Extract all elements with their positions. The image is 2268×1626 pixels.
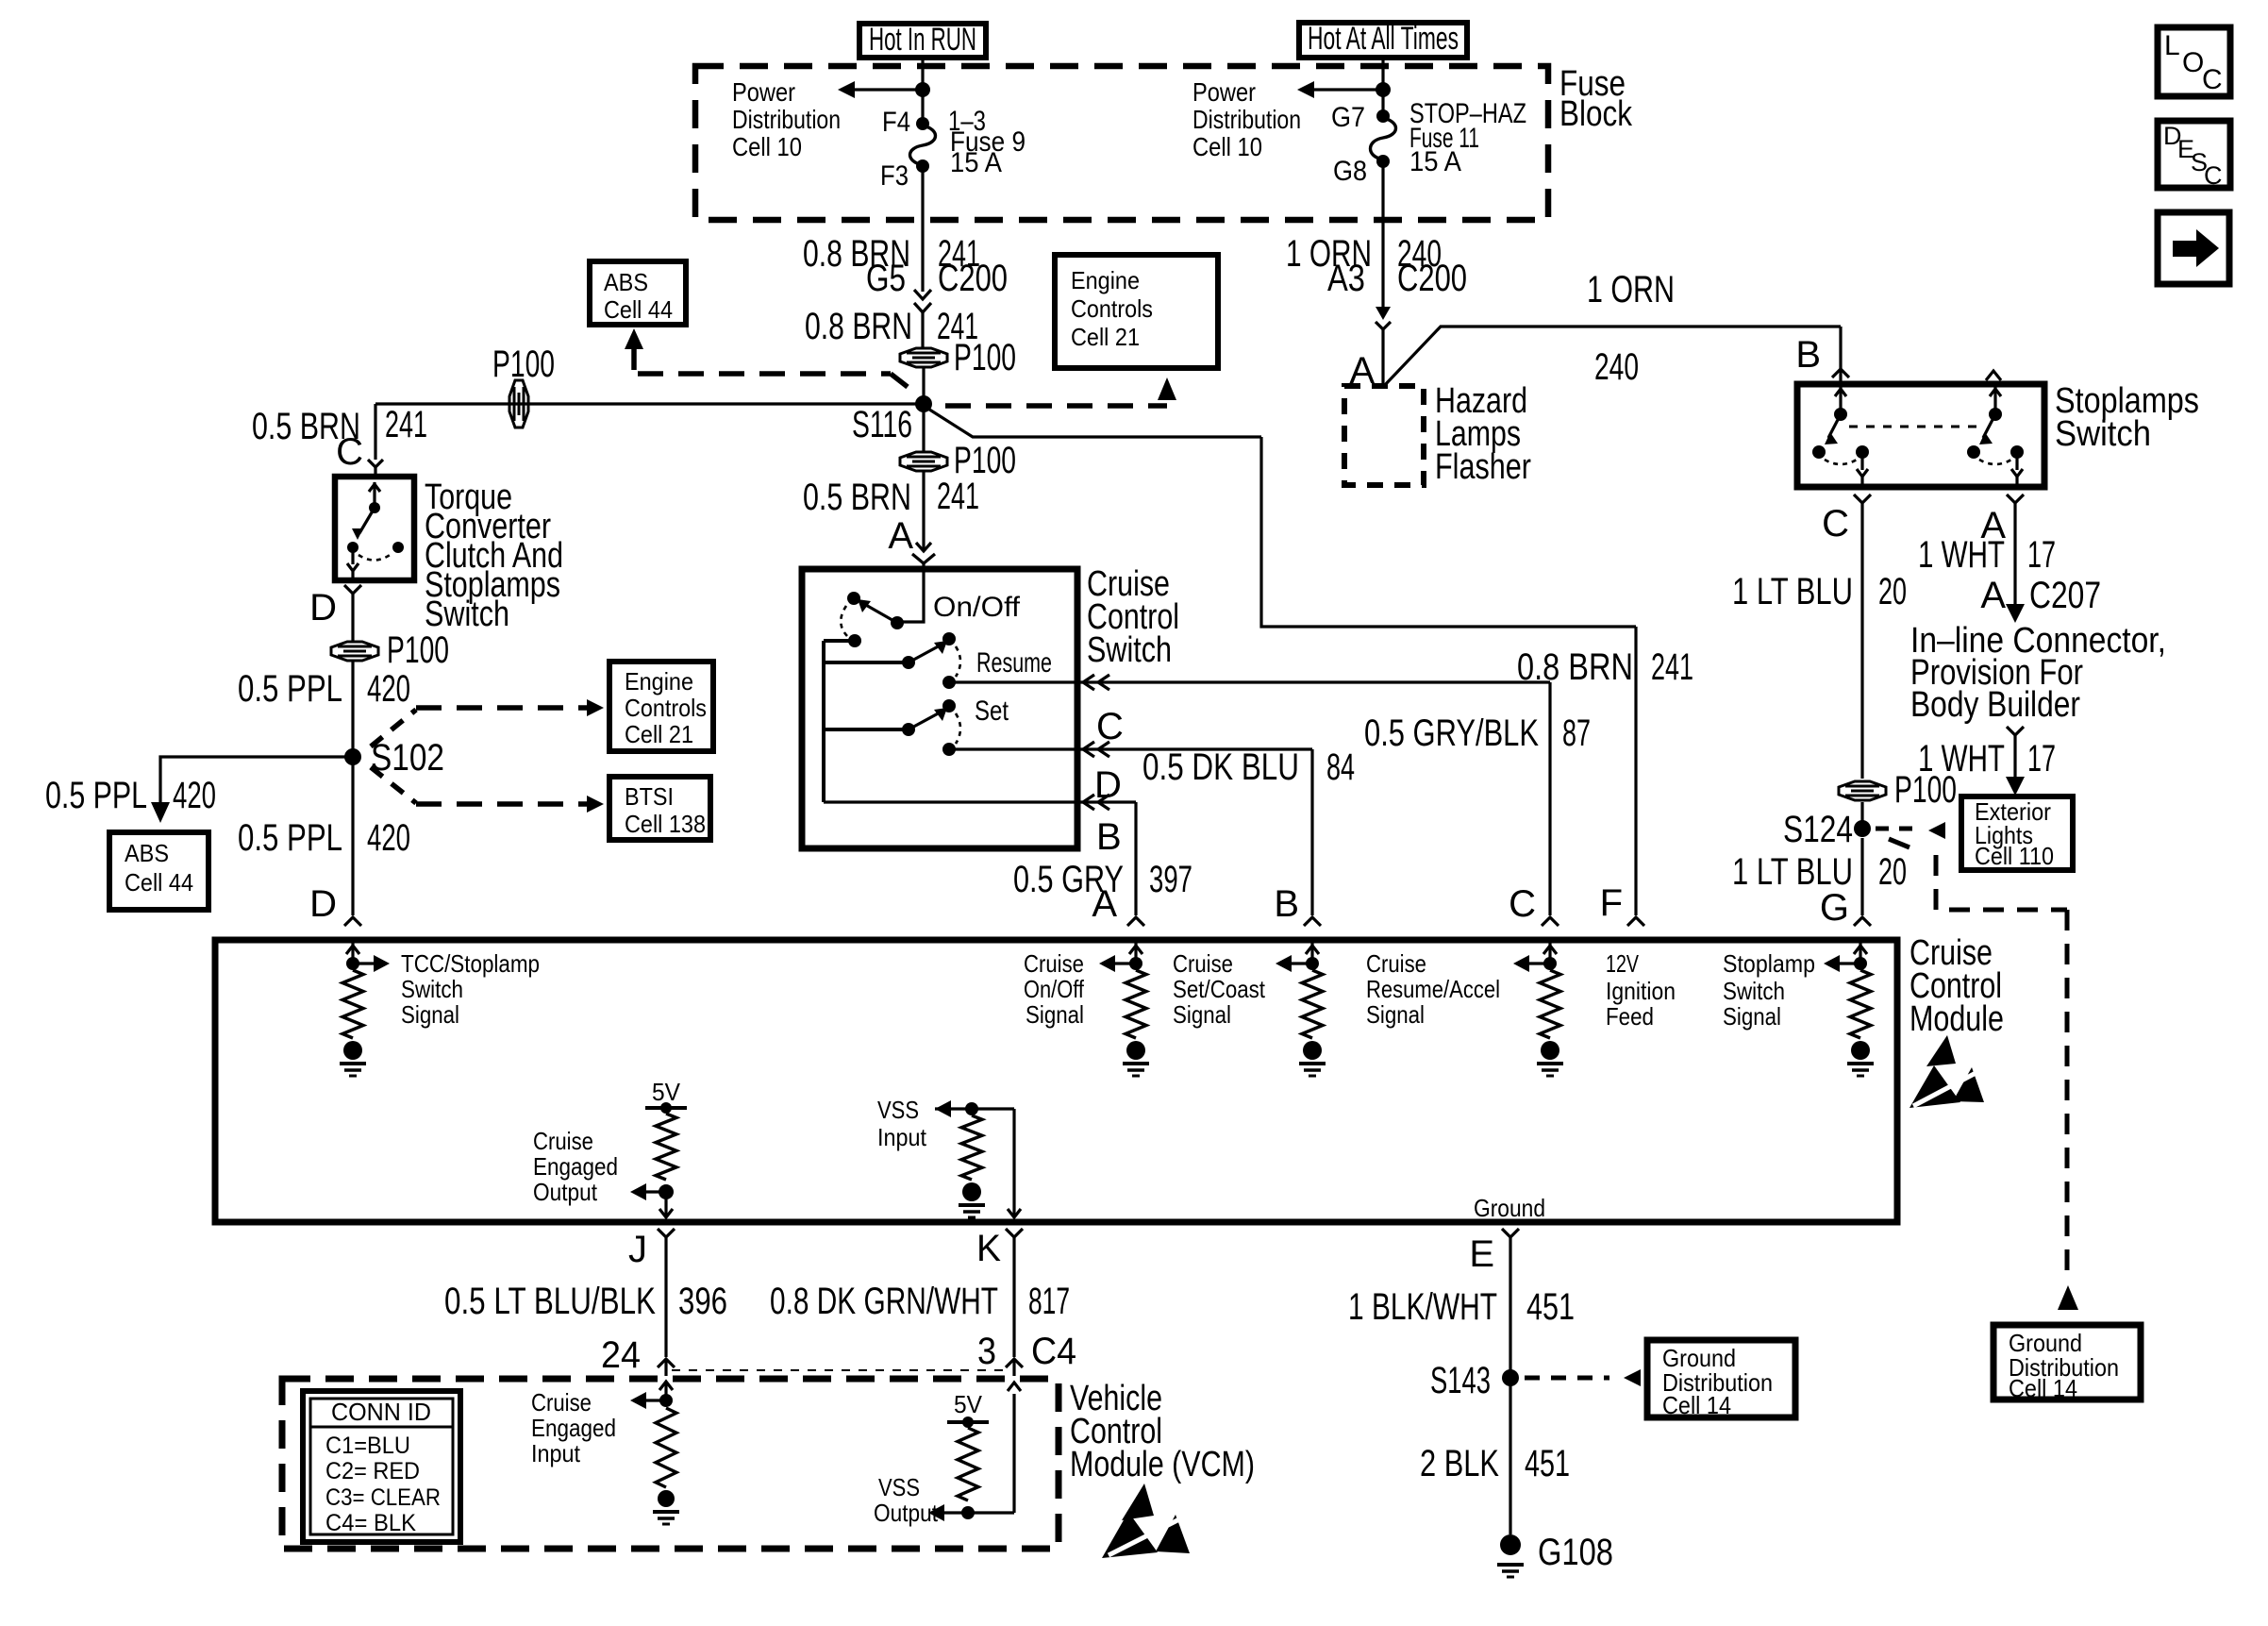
- svg-text:Cruise: Cruise: [1173, 949, 1233, 978]
- connector P100 (inline, left wire): [509, 380, 528, 427]
- svg-text:G5: G5: [866, 258, 906, 299]
- pin B chevron of stoplamps switch: [1832, 369, 1849, 377]
- VCM pin 24: Cruise Engaged Input: [664, 1382, 667, 1400]
- svg-text:0.5 BRN: 0.5 BRN: [803, 477, 911, 518]
- wire: VSS output to pin 3: [968, 1511, 1014, 1514]
- svg-text:Signal: Signal: [1723, 1002, 1781, 1031]
- wire: to hazard lamps flasher pin A: [1381, 329, 1384, 387]
- svg-text:Cell 44: Cell 44: [604, 295, 673, 324]
- svg-text:15 A: 15 A: [950, 147, 1002, 178]
- cruise switch: On/Off contact: [897, 569, 924, 622]
- svg-text:Power: Power: [732, 77, 795, 107]
- ground (module pin A): [1126, 1041, 1145, 1060]
- svg-text:0.8 BRN: 0.8 BRN: [1517, 646, 1633, 688]
- svg-text:Resume/Accel: Resume/Accel: [1366, 975, 1500, 1003]
- torque switch: fixed contact from pin C: [373, 482, 375, 508]
- module pin A input: Cruise On/Off Signal: [1134, 940, 1137, 964]
- svg-text:K: K: [976, 1228, 1001, 1269]
- svg-text:G8: G8: [1333, 156, 1367, 187]
- splice S102: [344, 748, 361, 765]
- wire: common pin B: [824, 800, 1136, 803]
- svg-text:Switch: Switch: [425, 595, 509, 634]
- svg-text:A: A: [1092, 883, 1117, 925]
- pin E of module: [1502, 1229, 1519, 1237]
- VCM cruise engaged input resistor: [656, 1408, 676, 1487]
- svg-text:Hot At All Times: Hot At All Times: [1308, 21, 1459, 57]
- svg-text:241: 241: [385, 404, 427, 445]
- svg-text:420: 420: [173, 775, 216, 816]
- svg-text:Signal: Signal: [1173, 1000, 1231, 1029]
- dashed reference to ABS Cell 44: [638, 371, 891, 377]
- reference box: Engine Controls Cell 21 (upper): [1055, 255, 1218, 368]
- svg-text:B: B: [1795, 334, 1821, 376]
- splice S143: [1502, 1369, 1519, 1386]
- wire: 1 ORN 240 from G8: [1381, 161, 1384, 309]
- dashed box: Hazard Lamps Flasher: [1344, 386, 1424, 485]
- svg-text:F4: F4: [882, 107, 910, 138]
- svg-text:Controls: Controls: [1071, 294, 1153, 323]
- svg-text:Engaged: Engaged: [533, 1152, 618, 1181]
- svg-text:84: 84: [1326, 746, 1355, 788]
- VSS output resistor: [958, 1428, 978, 1500]
- svg-text:C: C: [2202, 64, 2223, 95]
- dashed reference: S102 to Engine Controls Cell 21: [371, 710, 416, 746]
- svg-text:P100: P100: [954, 337, 1016, 378]
- svg-text:G108: G108: [1538, 1532, 1613, 1573]
- wire: 1 LT BLU 20 to module pin G: [1860, 838, 1863, 915]
- svg-text:1 BLK/WHT: 1 BLK/WHT: [1348, 1286, 1497, 1328]
- svg-text:C4= BLK: C4= BLK: [325, 1510, 416, 1536]
- svg-text:87: 87: [1562, 712, 1591, 754]
- svg-text:C4: C4: [1031, 1331, 1076, 1372]
- dashed box: Vehicle Control Module (VCM): [282, 1379, 1059, 1549]
- ground (module pin G): [1851, 1041, 1870, 1060]
- svg-text:B: B: [1096, 816, 1122, 858]
- ESD sensitivity symbol (module): [1926, 1035, 1956, 1066]
- module pin C input: Cruise Resume/Accel Signal: [1548, 940, 1551, 964]
- svg-text:Switch: Switch: [401, 975, 463, 1003]
- fuse F9: terminal F4: [916, 117, 929, 130]
- svg-text:Block: Block: [1559, 94, 1633, 134]
- svg-text:241: 241: [937, 476, 979, 517]
- svg-text:CONN ID: CONN ID: [331, 1398, 431, 1426]
- wire: Hot At All Times feed: [1381, 58, 1384, 116]
- wire: 2 BLK 451 to G108: [1509, 1378, 1511, 1534]
- svg-text:5V: 5V: [652, 1078, 681, 1106]
- svg-text:Switch: Switch: [1087, 630, 1172, 670]
- dashed reference: S124 to Exterior Lights: [1876, 827, 1917, 831]
- pin C of stoplamps switch: [1854, 495, 1871, 503]
- fuse F9 element: [910, 126, 936, 165]
- svg-text:Signal: Signal: [1366, 1000, 1425, 1029]
- ground (module pin D): [343, 1041, 362, 1060]
- svg-text:G: G: [1820, 887, 1849, 929]
- svg-text:15 A: 15 A: [1409, 146, 1461, 177]
- wire: 0.8 BRN 241 below C200: [921, 312, 924, 348]
- svg-text:0.8 BRN: 0.8 BRN: [805, 306, 912, 347]
- svg-text:Hot In RUN: Hot In RUN: [869, 22, 976, 58]
- svg-text:D: D: [1094, 764, 1122, 806]
- diagonal from S116 to ignition feed run: [924, 406, 1261, 437]
- module pin G pulldown resistor: [1850, 970, 1871, 1038]
- svg-text:O: O: [2182, 47, 2204, 78]
- svg-text:20: 20: [1878, 851, 1907, 893]
- svg-text:Signal: Signal: [1026, 1000, 1084, 1029]
- svg-text:Switch: Switch: [2055, 414, 2151, 454]
- component box: Torque Converter Clutch And Stoplamps Switch: [335, 477, 414, 580]
- connector chevron below body builder: [2007, 727, 2024, 735]
- svg-text:Power: Power: [1192, 77, 1256, 107]
- svg-text:ABS: ABS: [604, 268, 648, 296]
- legend box: DESC: [2158, 121, 2230, 188]
- svg-text:D: D: [309, 883, 337, 925]
- fuse F9: terminal F3: [916, 159, 929, 173]
- wire: drop to pin C: [374, 404, 376, 460]
- dashed route to Ground Distribution Cell 14: [1889, 839, 1909, 847]
- connector at cruise switch pin A: [916, 543, 931, 551]
- dashed reference: S102 to BTSI Cell 138: [371, 767, 416, 803]
- svg-text:451: 451: [1525, 1443, 1570, 1484]
- svg-text:Signal: Signal: [401, 1000, 459, 1029]
- svg-text:Cruise: Cruise: [533, 1127, 593, 1155]
- reference box: Engine Controls Cell 21 (mid): [609, 662, 713, 751]
- svg-text:C200: C200: [1397, 258, 1467, 299]
- svg-text:C: C: [1822, 503, 1849, 545]
- svg-text:C: C: [2204, 161, 2223, 190]
- svg-text:Resume: Resume: [976, 647, 1052, 679]
- svg-text:A: A: [888, 515, 913, 557]
- connector C4 dashed line: [672, 1369, 1008, 1371]
- reference box: Ground Distribution Cell 14 (right): [1993, 1325, 2141, 1400]
- connector P100 (stoplamp leg): [1839, 781, 1886, 800]
- svg-text:397: 397: [1149, 859, 1192, 900]
- cruise switch: Set contact: [824, 728, 909, 731]
- module pin C pulldown resistor: [1540, 970, 1560, 1038]
- svg-text:Cell 21: Cell 21: [1071, 323, 1140, 351]
- legend box: LOC: [2158, 27, 2230, 96]
- svg-text:817: 817: [1028, 1281, 1070, 1322]
- svg-text:F3: F3: [880, 160, 909, 192]
- wire: cruise engaged output to pin J: [664, 1192, 667, 1215]
- svg-text:S116: S116: [852, 404, 912, 445]
- stoplamps switch: right pole contact to pin A: [1979, 460, 2011, 464]
- svg-text:Switch: Switch: [1723, 977, 1785, 1005]
- svg-text:Controls: Controls: [625, 694, 707, 722]
- svg-text:1 ORN: 1 ORN: [1587, 269, 1675, 310]
- cruise engaged output resistor: [656, 1114, 676, 1180]
- svg-text:Cell 110: Cell 110: [1975, 842, 2054, 870]
- svg-text:24: 24: [601, 1334, 641, 1376]
- svg-text:Cell 138: Cell 138: [625, 810, 706, 838]
- fuse F11: terminal G7: [1376, 109, 1390, 123]
- dashed reference: S143 to Ground Distribution: [1525, 1376, 1609, 1381]
- svg-text:Cell 14: Cell 14: [1662, 1391, 1731, 1419]
- svg-text:J: J: [628, 1229, 647, 1270]
- svg-text:L: L: [2164, 30, 2180, 61]
- svg-text:Cell 10: Cell 10: [1192, 132, 1262, 161]
- reference box: BTSI Cell 138: [609, 777, 710, 840]
- svg-text:12V: 12V: [1606, 949, 1639, 978]
- off-page arrow to ABS box: [625, 328, 643, 349]
- fuse F11: terminal G8: [1376, 155, 1390, 168]
- torque switch: open contact and travel arc: [359, 553, 392, 561]
- ESD sensitivity symbol (VCM): [1122, 1484, 1154, 1520]
- wire: pin B drop to module pin A: [1134, 802, 1137, 915]
- VSS input resistor: [961, 1115, 982, 1180]
- svg-text:Flasher: Flasher: [1435, 447, 1531, 487]
- ground (module pin B): [1303, 1041, 1322, 1060]
- module pin B input: Cruise Set/Coast Signal: [1310, 940, 1313, 964]
- component box: Stoplamps Switch: [1797, 384, 2044, 487]
- svg-text:0.5 PPL: 0.5 PPL: [238, 817, 342, 859]
- svg-text:Cruise: Cruise: [1024, 949, 1084, 978]
- pin J of module: [658, 1229, 675, 1237]
- svg-text:17: 17: [2027, 738, 2056, 779]
- svg-text:Ignition: Ignition: [1606, 977, 1676, 1005]
- torque switch: contact to pin D: [347, 542, 359, 553]
- wire: pin D down: [351, 594, 354, 642]
- svg-text:Cell 14: Cell 14: [2009, 1374, 2077, 1402]
- svg-text:C2= RED: C2= RED: [325, 1458, 420, 1484]
- svg-text:TCC/Stoplamp: TCC/Stoplamp: [401, 949, 540, 978]
- wire: Hot In RUN feed: [921, 58, 924, 124]
- connector P100 (torque leg): [331, 642, 378, 661]
- svg-text:On/Off: On/Off: [933, 592, 1021, 623]
- ground G108: [1500, 1534, 1521, 1555]
- svg-text:A3: A3: [1327, 258, 1365, 299]
- wire to splice S116: [922, 367, 925, 404]
- svg-text:Body Builder: Body Builder: [1910, 685, 2080, 725]
- svg-text:Engine: Engine: [625, 667, 693, 696]
- svg-text:241: 241: [1651, 646, 1693, 688]
- svg-text:BTSI: BTSI: [625, 782, 674, 811]
- wire: Resume output pin C: [947, 682, 950, 685]
- component box: Cruise Control Switch: [802, 569, 1077, 848]
- svg-text:Cell 44: Cell 44: [125, 868, 193, 897]
- pin A of stoplamps switch: [2007, 495, 2024, 503]
- wire: 0.5 LT BLU/BLK 396: [664, 1237, 667, 1357]
- svg-text:240: 240: [1594, 346, 1639, 388]
- wire: 1 WHT to in-line connector: [2013, 503, 2016, 608]
- connector C200 (arrow into hazard feed): [1376, 307, 1391, 320]
- cruise switch: common bus: [824, 639, 855, 643]
- svg-text:3: 3: [977, 1331, 996, 1372]
- wire: 0.5 BRN 241 to cruise switch pin A: [922, 471, 925, 551]
- svg-text:E: E: [1469, 1233, 1494, 1275]
- stoplamps switch: gang link (dashed): [1849, 426, 1983, 428]
- svg-text:P100: P100: [387, 629, 449, 671]
- wire: pin D drop to module pin B: [1310, 749, 1313, 915]
- wire: VSS to pin K: [1012, 1109, 1015, 1215]
- module pin D pulldown resistor: [342, 970, 363, 1038]
- svg-text:0.5 LT BLU/BLK: 0.5 LT BLU/BLK: [444, 1281, 656, 1322]
- pin D arrows of cruise switch: [1083, 742, 1094, 749]
- svg-text:Distribution: Distribution: [1192, 105, 1301, 134]
- svg-text:Cell 10: Cell 10: [732, 132, 802, 161]
- ground (VSS input): [962, 1182, 981, 1201]
- svg-text:Engine: Engine: [1071, 266, 1140, 294]
- svg-text:ABS: ABS: [125, 839, 169, 867]
- svg-text:Set: Set: [975, 696, 1009, 727]
- wire: 0.5 PPL 420 to module pin D: [351, 757, 354, 915]
- svg-text:396: 396: [678, 1281, 727, 1322]
- svg-text:C207: C207: [2029, 575, 2101, 616]
- svg-text:C200: C200: [938, 258, 1008, 299]
- svg-text:VSS: VSS: [877, 1096, 919, 1124]
- svg-text:S102: S102: [371, 737, 444, 779]
- connector C200 (double chevron): [914, 290, 931, 299]
- svg-text:C: C: [1096, 706, 1124, 747]
- svg-text:D: D: [309, 587, 337, 629]
- svg-text:Output: Output: [533, 1178, 598, 1206]
- wire: 0.5 PPL 420 to S102: [351, 661, 354, 757]
- svg-text:0.5 PPL: 0.5 PPL: [45, 775, 147, 816]
- svg-text:451: 451: [1526, 1286, 1575, 1328]
- splice S116: [915, 395, 932, 412]
- svg-text:Module: Module: [1909, 999, 2004, 1039]
- svg-text:1 LT BLU: 1 LT BLU: [1732, 571, 1853, 612]
- svg-text:Module (VCM): Module (VCM): [1070, 1445, 1255, 1484]
- legend box: forward arrow: [2158, 212, 2229, 284]
- svg-text:Input: Input: [531, 1439, 581, 1467]
- svg-text:Cruise: Cruise: [531, 1388, 592, 1416]
- wire: S116 down to P100: [922, 404, 925, 452]
- svg-text:On/Off: On/Off: [1024, 975, 1085, 1003]
- svg-text:0.8 DK GRN/WHT: 0.8 DK GRN/WHT: [770, 1281, 998, 1322]
- pin K of module: [1006, 1229, 1023, 1237]
- ground (module pin C): [1541, 1041, 1559, 1060]
- junction to Power Distribution: [915, 82, 930, 97]
- svg-text:B: B: [1274, 883, 1299, 925]
- svg-text:A: A: [1980, 575, 2006, 616]
- cruise switch: Resume contact: [824, 661, 909, 664]
- svg-text:Feed: Feed: [1606, 1002, 1654, 1031]
- stoplamps switch: right pole arm: [1986, 371, 2001, 380]
- svg-text:17: 17: [2027, 534, 2056, 576]
- wire: 1 WHT 17 to exterior lights: [2013, 735, 2016, 781]
- pin B arrows of cruise switch: [1083, 795, 1094, 802]
- svg-text:C1=BLU: C1=BLU: [325, 1433, 410, 1459]
- reference box: ABS Cell 44 (upper): [590, 261, 686, 325]
- svg-text:Cell 21: Cell 21: [625, 720, 693, 748]
- reference box: ABS Cell 44 (lower): [109, 832, 208, 910]
- svg-text:C3= CLEAR: C3= CLEAR: [325, 1484, 441, 1511]
- cruise engaged output arrow: [645, 1190, 666, 1193]
- module pin B pulldown resistor: [1302, 970, 1323, 1038]
- torque switch: movable arm: [359, 508, 375, 533]
- svg-text:P100: P100: [492, 344, 555, 385]
- svg-text:420: 420: [367, 817, 410, 859]
- wire: 1 BLK/WHT 451: [1509, 1237, 1511, 1378]
- branch wire to ABS: [160, 757, 353, 802]
- label box: Hot In RUN: [859, 24, 986, 58]
- svg-text:2 BLK: 2 BLK: [1420, 1443, 1499, 1484]
- svg-text:VSS: VSS: [878, 1473, 920, 1501]
- svg-text:P100: P100: [1894, 769, 1957, 811]
- svg-text:G7: G7: [1331, 102, 1365, 133]
- svg-text:C: C: [336, 431, 363, 473]
- dashed reference to Engine Controls Cell 21 (from S116): [945, 403, 1167, 409]
- component box: Cruise Control Module: [215, 940, 1897, 1222]
- svg-text:20: 20: [1878, 571, 1907, 612]
- wire: 0.8 BRN 241 ignition feed to module pin F: [1261, 437, 1636, 627]
- svg-text:F: F: [1600, 882, 1623, 924]
- module pin A pulldown resistor: [1126, 970, 1146, 1038]
- svg-text:0.5 DK BLU: 0.5 DK BLU: [1142, 746, 1299, 788]
- splice S124: [1854, 820, 1871, 837]
- svg-text:Cruise: Cruise: [1366, 949, 1426, 978]
- ground (VCM cruise engaged input): [653, 1510, 679, 1514]
- module pin D input: TCC/Stoplamp Switch Signal: [351, 940, 354, 964]
- wire: Set output pin D: [949, 747, 1312, 750]
- connector P100 (main harness): [900, 348, 947, 367]
- svg-text:420: 420: [367, 668, 410, 710]
- svg-text:Output: Output: [874, 1499, 939, 1527]
- VSS output arrow and label: [943, 1511, 968, 1514]
- junction to Power Distribution (right): [1376, 82, 1391, 97]
- fuse block (dashed box): [695, 66, 1548, 220]
- svg-text:Stoplamp: Stoplamp: [1723, 949, 1815, 978]
- reference box: Exterior Lights Cell 110: [1961, 796, 2073, 870]
- reference box: Ground Distribution Cell 14 (mid): [1647, 1340, 1795, 1417]
- fuse F11 element: [1371, 118, 1396, 159]
- svg-text:S143: S143: [1430, 1360, 1491, 1401]
- stoplamps switch: left pole contact to pin C: [1825, 460, 1857, 464]
- wire: 0.8 DK GRN/WHT 817: [1012, 1237, 1015, 1357]
- svg-text:5V: 5V: [954, 1390, 983, 1418]
- svg-text:0.5 GRY/BLK: 0.5 GRY/BLK: [1364, 712, 1539, 754]
- svg-text:C: C: [1509, 883, 1536, 925]
- svg-text:Distribution: Distribution: [732, 105, 841, 134]
- svg-text:Engaged: Engaged: [531, 1414, 616, 1442]
- wire: 1 LT BLU 20 stoplamp to S124: [1860, 503, 1863, 779]
- connector P100 (cruise switch leg): [900, 452, 947, 471]
- stoplamps switch: left pole arm: [1839, 384, 1842, 414]
- wire: pin C drop to module pin C: [1548, 682, 1551, 915]
- module pin G input: Stoplamp Switch Signal: [1859, 940, 1861, 964]
- svg-text:0.5 PPL: 0.5 PPL: [238, 668, 342, 710]
- wire: S116 left to torque converter clutch switch: [375, 402, 924, 405]
- svg-text:Ground: Ground: [1474, 1194, 1545, 1222]
- svg-text:1 WHT: 1 WHT: [1918, 534, 2005, 576]
- conn id table box: [303, 1391, 460, 1542]
- svg-text:Input: Input: [877, 1123, 927, 1151]
- pin C arrows of cruise switch: [1083, 675, 1094, 682]
- wire: 0.8 BRN 241 from F3: [921, 166, 924, 292]
- label box: Hot At All Times: [1299, 23, 1467, 58]
- svg-text:S124: S124: [1783, 809, 1853, 850]
- wire: 1 ORN 240 to stoplamps switch pin B: [1383, 327, 1841, 387]
- svg-text:Set/Coast: Set/Coast: [1173, 975, 1266, 1003]
